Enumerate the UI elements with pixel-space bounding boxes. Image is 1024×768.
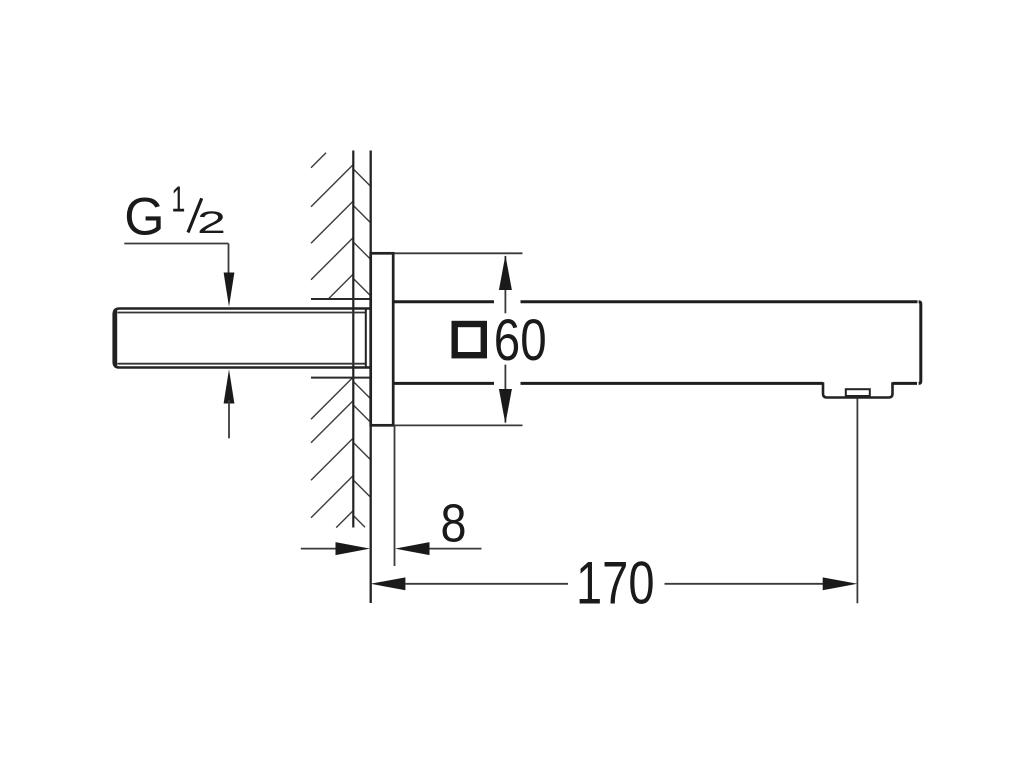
8-dim left arrowhead (points right to wall) [336,542,371,555]
wall hole top line [311,298,371,300]
60-dim up arrowhead [499,255,512,290]
svg-text:2: 2 [197,204,226,240]
8-dim right line [430,548,482,550]
170-dim left arrowhead [370,577,405,590]
svg-text:8: 8 [441,495,467,554]
170-dim left line [405,583,568,585]
aerator (mousseur) outer [823,382,893,397]
aerator inner [846,389,870,396]
svg-text:60: 60 [494,308,547,373]
pipe left end face line [115,310,117,367]
60-dim top extension line [395,252,523,254]
8-dim right arrowhead (points left to flange) [395,542,430,555]
spout right end [919,302,921,384]
60-dim bottom extension line [395,424,523,426]
G1/2 down arrow (to pipe top) [224,273,235,307]
wall hatching [311,153,371,528]
170-dim right arrowhead [823,577,858,590]
wall hole bottom line [311,377,371,379]
pipe thread end line [365,309,367,368]
spout top line [393,300,494,303]
60-dim vertical line upper [504,256,506,313]
wall line 1 (structural face) [352,151,354,528]
60-dim vertical line lower [504,365,506,423]
60-dim down arrowhead [499,389,512,424]
svg-text:G: G [124,188,164,247]
flange (wall plate) [371,253,394,425]
170-dim right line [665,583,824,585]
svg-text:170: 170 [576,549,655,616]
pipe (threaded G1/2 nipple) outline [114,309,371,368]
square symbol [455,324,484,355]
pipe thread inner lines [118,312,366,314]
G 1/2 label [124,179,226,247]
aerator extension line [856,399,858,604]
svg-text:1: 1 [171,179,185,220]
wall line 2 (finished surface / extension line) [370,151,372,604]
G1/2 up arrow (to pipe bottom) [224,369,235,403]
spout bottom line [393,382,494,385]
flange front extension line (below) [394,425,396,566]
G1/2 leader line [124,243,228,245]
8-dim left line [301,548,336,550]
